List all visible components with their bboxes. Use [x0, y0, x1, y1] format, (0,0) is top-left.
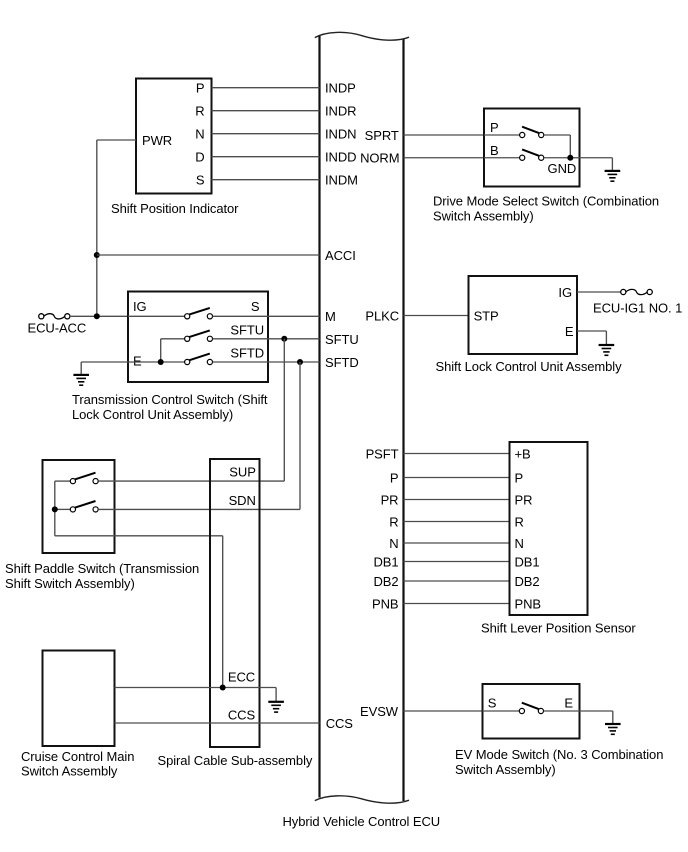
- svg-text:S: S: [251, 299, 260, 314]
- svg-text:IG: IG: [558, 285, 572, 300]
- svg-text:+B: +B: [515, 447, 531, 462]
- svg-text:PWR: PWR: [142, 133, 172, 148]
- wire M: [268, 315, 320, 317]
- svg-text:INDD: INDD: [325, 150, 356, 165]
- svg-text:R: R: [389, 515, 398, 530]
- svg-text:INDP: INDP: [325, 81, 356, 96]
- wire IG to switch contact: [128, 315, 185, 317]
- svg-text:S: S: [196, 173, 205, 188]
- wire E to ground: [577, 330, 606, 332]
- wire to ground: [611, 158, 613, 171]
- ECU top torn edge: [315, 32, 409, 40]
- wire SUP: [98, 480, 284, 482]
- wire ECC: [115, 687, 277, 689]
- wire INDP: [212, 87, 320, 89]
- svg-text:INDR: INDR: [325, 104, 356, 119]
- svg-text:SDN: SDN: [229, 493, 256, 508]
- junction E branch: [158, 359, 164, 365]
- svg-text:E: E: [133, 354, 142, 369]
- ECU right boundary line: [402, 39, 404, 801]
- svg-text:E: E: [564, 696, 573, 711]
- wire to SFTU contact: [161, 338, 185, 340]
- wire SFTD: [213, 361, 320, 363]
- component box: Cruise Control Main Switch: [43, 651, 115, 747]
- svg-text:E: E: [565, 324, 574, 339]
- wire paddle common vertical: [54, 481, 56, 536]
- svg-text:SFTU: SFTU: [325, 332, 359, 347]
- wire PLKC: [404, 315, 469, 317]
- wire INDD: [212, 156, 320, 158]
- wire IG to connector: [577, 291, 621, 293]
- wire GND out: [544, 157, 613, 159]
- switch: EV mode contact: [519, 703, 543, 714]
- wire S contact to box edge: [213, 315, 269, 317]
- component box: Spiral Cable Sub-assembly: [210, 459, 260, 747]
- wire B to contact: [484, 157, 520, 159]
- wire EVSW: [404, 710, 483, 712]
- component box: EV Mode Switch: [483, 684, 580, 739]
- svg-text:NORM: NORM: [360, 151, 399, 166]
- svg-text:P: P: [490, 120, 499, 135]
- ECU left boundary line: [318, 36, 320, 798]
- wire SUP riser: [283, 339, 285, 481]
- svg-text:Lock Control Unit Assembly): Lock Control Unit Assembly): [72, 407, 233, 422]
- svg-text:PR: PR: [515, 493, 533, 508]
- wire E to ground: [544, 710, 613, 712]
- svg-text:PR: PR: [381, 493, 399, 508]
- wire SPRT: [404, 134, 485, 136]
- connector ECU-IG1 NO. 1: [621, 289, 653, 294]
- svg-text:P: P: [196, 81, 205, 96]
- ECU bottom torn edge: [315, 796, 409, 803]
- wire P to GND node: [569, 135, 571, 158]
- switch: drive mode B contact: [520, 149, 544, 160]
- wire to up contact: [55, 480, 71, 482]
- component box: Shift Position Indicator: [136, 79, 212, 194]
- switch: transmission control S contact: [185, 308, 213, 319]
- svg-text:N: N: [389, 536, 398, 551]
- svg-text:INDN: INDN: [325, 127, 356, 142]
- wire paddle common out: [55, 535, 223, 537]
- svg-text:ECU-ACC: ECU-ACC: [28, 321, 87, 336]
- svg-text:Shift Lever Position Sensor: Shift Lever Position Sensor: [481, 621, 636, 636]
- wire E to ground: [80, 362, 82, 375]
- svg-text:R: R: [195, 104, 204, 119]
- wire PNB: [404, 603, 510, 605]
- svg-text:Shift Position Indicator: Shift Position Indicator: [111, 201, 239, 216]
- wire ECC ground drop: [275, 688, 277, 702]
- ground (drive mode select switch): [605, 171, 621, 181]
- connector ECU-ACC: [39, 314, 70, 319]
- svg-text:EVSW: EVSW: [360, 704, 399, 719]
- svg-text:SFTU: SFTU: [230, 323, 264, 338]
- wire SDN riser: [299, 362, 301, 509]
- svg-text:Switch Assembly): Switch Assembly): [455, 762, 556, 777]
- wire E ground drop: [605, 331, 607, 345]
- svg-text:PNB: PNB: [372, 597, 399, 612]
- ground (transmission control switch E): [73, 375, 89, 385]
- wire NORM: [404, 157, 485, 159]
- switch: transmission control SFTU contact: [185, 330, 213, 341]
- junction ACCI tap: [94, 252, 100, 258]
- svg-text:INDM: INDM: [325, 173, 358, 188]
- svg-text:M: M: [325, 309, 336, 324]
- svg-text:Switch Assembly: Switch Assembly: [21, 764, 118, 779]
- wire vertical ACC bus: [96, 140, 98, 316]
- wire internal E branch: [160, 339, 162, 362]
- switch: shift paddle down contact: [70, 501, 98, 512]
- wire ACCI: [97, 254, 320, 256]
- component box: Transmission Control Switch: [128, 292, 268, 383]
- component box: Shift Paddle Switch: [43, 460, 115, 553]
- svg-text:Shift Switch Assembly): Shift Switch Assembly): [5, 576, 135, 591]
- wire EV ground drop: [612, 711, 614, 724]
- svg-text:DB2: DB2: [373, 574, 398, 589]
- wire INDN: [212, 133, 320, 135]
- svg-text:SFTD: SFTD: [230, 346, 264, 361]
- ground (ECC): [268, 702, 284, 712]
- wire PSFT: [404, 453, 510, 455]
- svg-text:Hybrid Vehicle Control ECU: Hybrid Vehicle Control ECU: [283, 814, 441, 829]
- wire N: [404, 542, 510, 544]
- svg-text:PLKC: PLKC: [365, 309, 399, 324]
- svg-text:CCS: CCS: [228, 707, 256, 722]
- component box: Shift Lock Control Unit: [469, 276, 578, 354]
- svg-text:GND: GND: [548, 161, 577, 176]
- wire P to contact: [484, 134, 520, 136]
- svg-text:R: R: [515, 515, 524, 530]
- wire S to contact: [483, 710, 520, 712]
- svg-text:B: B: [490, 143, 499, 158]
- svg-text:CCS: CCS: [326, 716, 354, 731]
- svg-text:IG: IG: [133, 299, 147, 314]
- junction paddle common: [52, 506, 58, 512]
- wire SDN: [98, 508, 300, 510]
- junction GND node: [567, 155, 573, 161]
- wire PWR feed: [97, 139, 136, 141]
- junction ECC node: [220, 685, 226, 691]
- svg-text:N: N: [515, 536, 524, 551]
- switch: transmission control SFTD contact: [185, 354, 213, 365]
- svg-text:S: S: [488, 696, 497, 711]
- svg-text:ACCI: ACCI: [325, 248, 356, 263]
- junction SFTD tap: [297, 359, 303, 365]
- wire INDR: [212, 110, 320, 112]
- wire DB1: [404, 561, 510, 563]
- wire P contact output: [544, 134, 571, 136]
- component box: Shift Lever Position Sensor: [510, 442, 588, 615]
- svg-text:Drive Mode Select Switch (Comb: Drive Mode Select Switch (Combination: [433, 194, 659, 209]
- svg-text:P: P: [390, 471, 399, 486]
- svg-text:EV Mode Switch (No. 3 Combinat: EV Mode Switch (No. 3 Combination: [455, 747, 663, 762]
- svg-text:ECU-IG1 NO. 1: ECU-IG1 NO. 1: [593, 300, 682, 315]
- svg-text:Switch Assembly): Switch Assembly): [433, 209, 534, 224]
- svg-text:Transmission Control Switch (S: Transmission Control Switch (Shift: [72, 392, 268, 407]
- svg-text:SFTD: SFTD: [325, 355, 359, 370]
- svg-text:Shift Paddle Switch (Transmiss: Shift Paddle Switch (Transmission: [5, 561, 199, 576]
- svg-text:PNB: PNB: [515, 597, 542, 612]
- junction ECU-ACC node: [94, 313, 100, 319]
- ground (shift lock control unit E): [599, 345, 615, 355]
- svg-text:DB1: DB1: [515, 555, 540, 570]
- wire SFTU: [213, 338, 320, 340]
- svg-text:N: N: [195, 127, 204, 142]
- svg-text:DB2: DB2: [515, 574, 540, 589]
- wire CCS: [115, 722, 320, 724]
- wire P: [404, 477, 510, 479]
- svg-text:STP: STP: [474, 309, 499, 324]
- svg-text:DB1: DB1: [373, 555, 398, 570]
- svg-text:D: D: [195, 150, 204, 165]
- svg-text:SPRT: SPRT: [365, 128, 399, 143]
- switch: shift paddle up contact: [70, 473, 98, 484]
- ground (EV mode switch E): [605, 724, 621, 734]
- wire ECU-ACC to switch: [70, 315, 128, 317]
- svg-text:Spiral Cable Sub-assembly: Spiral Cable Sub-assembly: [158, 753, 313, 768]
- svg-text:SUP: SUP: [229, 464, 256, 479]
- wire E to SFTD contact: [81, 361, 184, 363]
- svg-text:P: P: [515, 471, 524, 486]
- svg-text:PSFT: PSFT: [366, 447, 399, 462]
- svg-text:Cruise Control Main: Cruise Control Main: [21, 749, 134, 764]
- svg-text:ECC: ECC: [228, 670, 255, 685]
- wire common vertical to ECC: [222, 536, 224, 688]
- component box: Drive Mode Select Switch: [484, 109, 580, 187]
- switch: drive mode P contact: [520, 127, 544, 138]
- wire PR: [404, 499, 510, 501]
- wire to down contact: [55, 508, 71, 510]
- wire INDM: [212, 179, 320, 181]
- wire DB2: [404, 580, 510, 582]
- wire R: [404, 521, 510, 523]
- svg-text:Shift Lock Control Unit Assemb: Shift Lock Control Unit Assembly: [436, 359, 623, 374]
- junction SFTU tap: [281, 336, 287, 342]
